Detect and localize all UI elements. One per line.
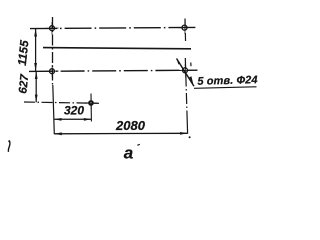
arrow 1155 up bbox=[34, 29, 37, 37]
arrow 1155 down bbox=[34, 63, 37, 71]
arrow 627 up bbox=[35, 71, 38, 79]
center line top-right hole vertical bbox=[184, 19, 187, 44]
dim line 627 bbox=[35, 71, 37, 102]
center line second row bbox=[29, 70, 198, 71]
center line left column vertical bbox=[52, 17, 54, 85]
plate edge line bbox=[43, 48, 191, 49]
dim line 320 bbox=[54, 118, 91, 120]
hole H2 top-right bbox=[178, 22, 191, 35]
arrow 2080 left bbox=[54, 132, 62, 135]
hole H4 mid-right bbox=[179, 64, 192, 77]
dim line 2080 bbox=[54, 132, 187, 135]
svg-text:а: а bbox=[124, 144, 133, 163]
hole H3 mid-left bbox=[46, 65, 59, 78]
dim line 1155 bbox=[35, 29, 37, 72]
arrow 627 down bbox=[35, 95, 38, 103]
center line right column vertical bbox=[185, 58, 187, 117]
arrow 320 right bbox=[84, 118, 92, 121]
note underline bbox=[194, 87, 257, 89]
center line bottom hole horizontal bbox=[24, 102, 99, 103]
leader line through H4 bbox=[177, 59, 195, 87]
small tick near H4 bbox=[190, 63, 192, 67]
svg-text:1155: 1155 bbox=[15, 39, 32, 66]
hole H1 top-left bbox=[46, 22, 59, 35]
center line bottom hole vertical bbox=[90, 94, 92, 122]
leader arrow upper bbox=[176, 58, 180, 64]
svg-text:627: 627 bbox=[17, 73, 31, 94]
extension line left reference bbox=[53, 85, 55, 134]
svg-text:2080: 2080 bbox=[115, 118, 146, 133]
leader arrow lower bbox=[189, 76, 193, 85]
hole H5 bottom bbox=[85, 97, 98, 109]
stray mark bottom-left bbox=[8, 141, 10, 152]
svg-text:5 отв. Ф24: 5 отв. Ф24 bbox=[197, 74, 258, 88]
arrow 320 left bbox=[54, 118, 62, 121]
tick above label bbox=[137, 144, 139, 145]
dot after 2080 arrow bbox=[189, 136, 191, 138]
arrow 2080 right bbox=[180, 132, 188, 135]
center line top row bbox=[30, 27, 197, 28]
svg-text:320: 320 bbox=[64, 104, 84, 118]
